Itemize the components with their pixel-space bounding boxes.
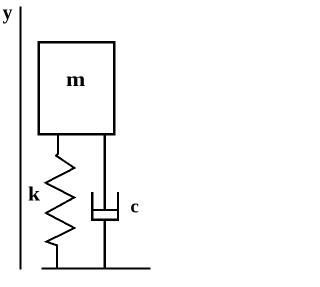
mass box m (39, 42, 115, 134)
damper rod lower (104, 220, 106, 269)
damper piston plate (93, 209, 117, 211)
damper rod upper (104, 134, 106, 210)
svg-text:m: m (66, 67, 86, 91)
svg-text:k: k (28, 184, 40, 205)
svg-text:y: y (3, 3, 13, 24)
y axis line (20, 7, 22, 270)
svg-text:c: c (130, 196, 138, 217)
spring k (zigzag) (46, 134, 75, 268)
damper cup (92, 192, 118, 219)
ground line (42, 267, 151, 269)
